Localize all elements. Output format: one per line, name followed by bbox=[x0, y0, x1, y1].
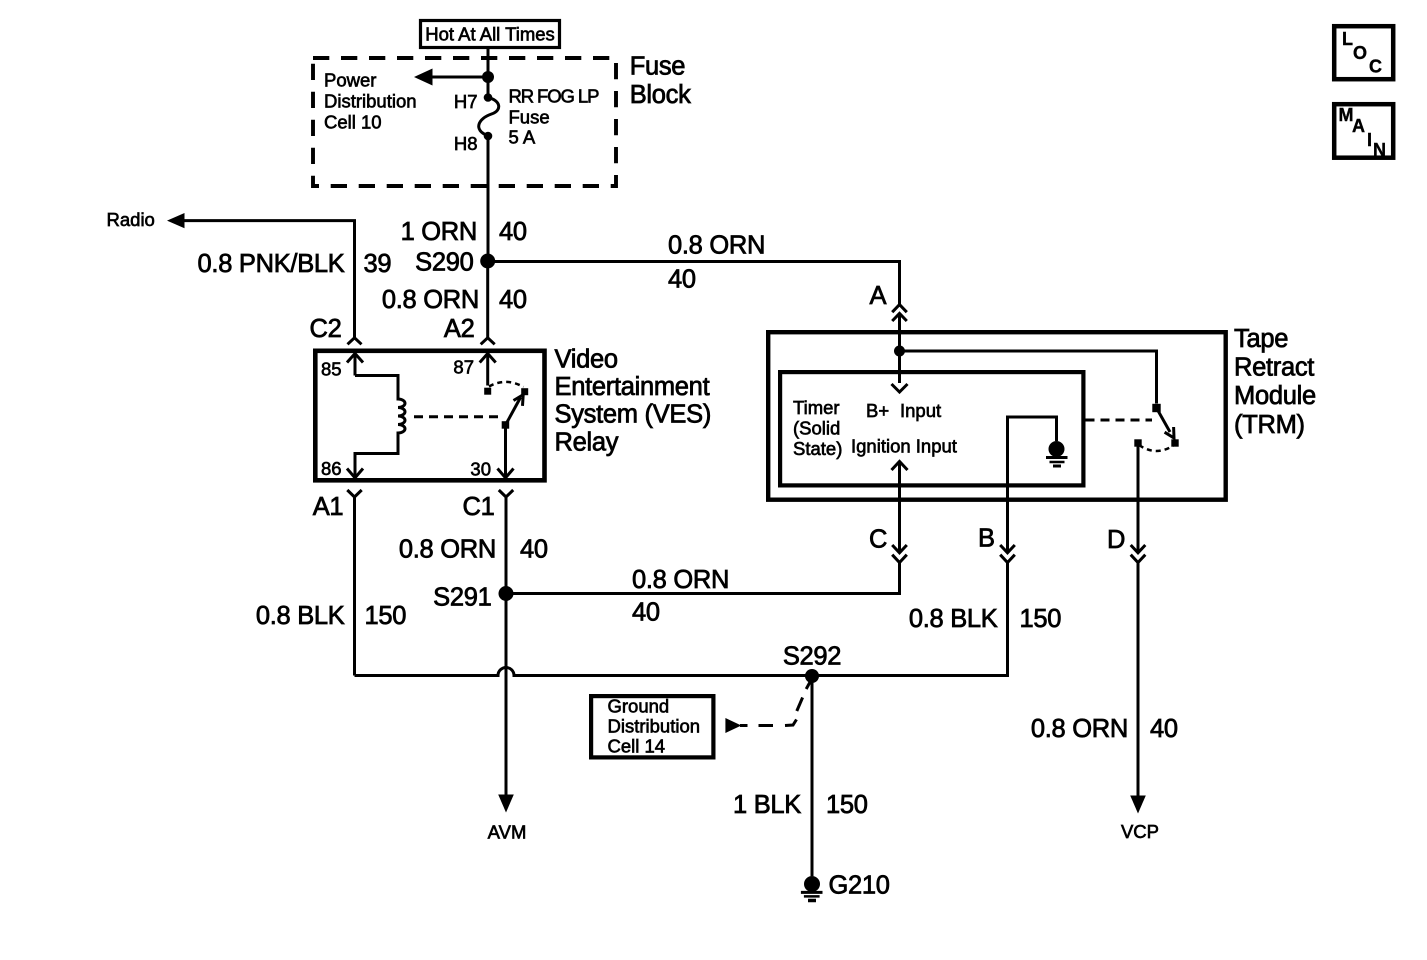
svg-text:Distribution: Distribution bbox=[324, 91, 417, 112]
svg-text:40: 40 bbox=[499, 286, 527, 314]
svg-text:Ground: Ground bbox=[608, 696, 670, 717]
svg-text:D: D bbox=[1107, 526, 1125, 554]
wire: B up into timer to ground bbox=[1008, 417, 1057, 553]
wire: A1 down to ground run bbox=[353, 497, 356, 676]
svg-text:H8: H8 bbox=[454, 133, 478, 154]
dashed reference arrow to S292 bbox=[725, 718, 741, 733]
svg-text:40: 40 bbox=[632, 599, 660, 627]
svg-text:State): State) bbox=[793, 438, 842, 459]
wire: S291 right to TRM pin C bbox=[506, 563, 900, 594]
svg-text:150: 150 bbox=[826, 791, 868, 819]
relay switch arm bbox=[502, 421, 510, 429]
svg-text:Module: Module bbox=[1234, 382, 1316, 410]
svg-text:Radio: Radio bbox=[107, 209, 155, 230]
svg-text:0.8 BLK: 0.8 BLK bbox=[909, 605, 998, 633]
TRM switch contact bbox=[1171, 439, 1178, 446]
svg-text:Timer: Timer bbox=[793, 397, 840, 418]
svg-text:40: 40 bbox=[668, 266, 696, 294]
svg-text:5 A: 5 A bbox=[509, 127, 536, 148]
svg-text:C1: C1 bbox=[463, 493, 495, 521]
wire: Radio arrow from C2 bbox=[167, 213, 185, 228]
svg-text:Entertainment: Entertainment bbox=[555, 373, 710, 401]
relay contact 87 bbox=[484, 388, 491, 395]
svg-text:30: 30 bbox=[470, 459, 491, 480]
svg-text:0.8 PNK/BLK: 0.8 PNK/BLK bbox=[198, 250, 345, 278]
relay dashed contact arc bbox=[489, 382, 524, 387]
svg-text:Distribution: Distribution bbox=[608, 716, 701, 737]
TRM switch arm bbox=[1157, 408, 1171, 432]
svg-text:G210: G210 bbox=[829, 872, 890, 900]
wire: D down from switch bbox=[1137, 446, 1140, 553]
svg-text:C: C bbox=[869, 526, 887, 554]
svg-text:150: 150 bbox=[365, 602, 407, 630]
LOC index box bbox=[1334, 26, 1393, 79]
fuse block dashed box bbox=[313, 58, 616, 186]
arrow to AVM bbox=[498, 795, 514, 813]
wire: fuse H8 down to S290 bbox=[487, 136, 490, 262]
wire: Hot At All Times down into fuse block bbox=[487, 48, 490, 77]
TRM dashed linkage bbox=[1086, 419, 1153, 422]
wire: B+ Input arrow bbox=[898, 351, 901, 383]
svg-text:(TRM): (TRM) bbox=[1234, 411, 1305, 439]
wire: A into TRM to junction bbox=[898, 313, 901, 351]
MAIN index box bbox=[1334, 104, 1393, 158]
TRM dashed contact arc bbox=[1139, 445, 1174, 451]
svg-text:0.8 ORN: 0.8 ORN bbox=[668, 232, 765, 260]
svg-text:0.8 BLK: 0.8 BLK bbox=[256, 602, 345, 630]
wire: D down to VCP bbox=[1137, 563, 1140, 796]
svg-text:A: A bbox=[870, 282, 887, 310]
relay pin 85 arrow bbox=[347, 354, 363, 363]
wire: S290 right to TRM pin A bbox=[488, 262, 900, 306]
svg-text:AVM: AVM bbox=[488, 822, 527, 843]
svg-text:VCP: VCP bbox=[1121, 821, 1159, 842]
svg-text:(Solid: (Solid bbox=[793, 418, 840, 439]
svg-text:Video: Video bbox=[555, 345, 618, 373]
svg-text:L: L bbox=[1342, 29, 1353, 49]
svg-text:Retract: Retract bbox=[1234, 354, 1314, 382]
node: TRM B+ junction bbox=[894, 346, 905, 357]
arrow to VCP bbox=[1130, 796, 1146, 814]
svg-text:O: O bbox=[1353, 43, 1367, 63]
svg-text:A1: A1 bbox=[313, 493, 344, 521]
svg-text:Relay: Relay bbox=[555, 428, 619, 456]
svg-text:Hot At All Times: Hot At All Times bbox=[425, 24, 555, 45]
svg-text:Cell 10: Cell 10 bbox=[324, 111, 382, 132]
svg-text:Block: Block bbox=[630, 81, 691, 109]
svg-text:Ignition Input: Ignition Input bbox=[851, 436, 957, 457]
ground distribution cell box bbox=[591, 696, 713, 757]
svg-text:Input: Input bbox=[900, 400, 941, 421]
svg-text:RR FOG LP: RR FOG LP bbox=[509, 85, 600, 106]
svg-text:A: A bbox=[1352, 116, 1365, 136]
svg-text:System (VES): System (VES) bbox=[555, 401, 712, 429]
relay coil bbox=[355, 376, 405, 471]
wire: ignition input up arrow from C bbox=[892, 462, 908, 471]
svg-text:0.8 ORN: 0.8 ORN bbox=[1031, 715, 1128, 743]
fuse F: RR FOG LP Fuse 5A between H7 and H8 bbox=[487, 77, 490, 96]
TRM outer box: Tape Retract Module bbox=[768, 332, 1225, 500]
svg-text:86: 86 bbox=[321, 458, 342, 479]
svg-text:H7: H7 bbox=[454, 91, 478, 112]
ground: TRM internal bbox=[1049, 441, 1065, 457]
svg-text:Fuse: Fuse bbox=[509, 107, 550, 128]
svg-text:C2: C2 bbox=[310, 315, 342, 343]
wire: S292 down to G210 bbox=[811, 676, 814, 876]
svg-text:85: 85 bbox=[321, 359, 342, 380]
Hot At All Times label box bbox=[421, 21, 560, 48]
relay dashed linkage bbox=[414, 415, 501, 418]
svg-text:1 BLK: 1 BLK bbox=[733, 791, 801, 819]
relay pin 30 wire and arrow bbox=[504, 428, 507, 477]
svg-text:150: 150 bbox=[1020, 605, 1062, 633]
wire: arrow to Power Distribution Cell 10 bbox=[431, 76, 488, 79]
svg-text:Cell 14: Cell 14 bbox=[608, 736, 666, 757]
relay pin 86 arrow bbox=[347, 469, 363, 478]
TRM switch pivot bbox=[1152, 404, 1160, 412]
svg-text:87: 87 bbox=[453, 357, 474, 378]
svg-text:S292: S292 bbox=[783, 643, 841, 671]
svg-text:0.8 ORN: 0.8 ORN bbox=[382, 286, 479, 314]
wire: C1 down to S291 bbox=[505, 497, 508, 594]
ground G210 bbox=[804, 876, 820, 892]
svg-text:40: 40 bbox=[520, 536, 548, 564]
svg-text:40: 40 bbox=[1150, 715, 1178, 743]
svg-text:1 ORN: 1 ORN bbox=[401, 218, 477, 246]
svg-text:S291: S291 bbox=[433, 584, 491, 612]
svg-text:N: N bbox=[1373, 140, 1386, 160]
wire: S291 down to AVM bbox=[505, 594, 508, 795]
svg-text:A2: A2 bbox=[444, 315, 475, 343]
wire: S290 down to relay A2 bbox=[486, 262, 489, 338]
TRM inner timer box bbox=[780, 372, 1083, 485]
relay box: Video Entertainment System (VES) Relay bbox=[315, 351, 544, 481]
node: junction dot at fuse feed bbox=[482, 71, 494, 83]
TRM pin D contact bbox=[1134, 439, 1141, 446]
svg-text:0.8 ORN: 0.8 ORN bbox=[632, 566, 729, 594]
svg-text:39: 39 bbox=[364, 250, 392, 278]
svg-text:0.8 ORN: 0.8 ORN bbox=[399, 536, 496, 564]
relay pin 87 arrow bbox=[480, 354, 496, 363]
svg-text:C: C bbox=[1369, 57, 1382, 77]
svg-text:I: I bbox=[1367, 130, 1372, 150]
svg-text:Tape: Tape bbox=[1234, 325, 1288, 353]
svg-text:B: B bbox=[978, 525, 995, 553]
svg-text:B+: B+ bbox=[866, 400, 889, 421]
svg-text:40: 40 bbox=[499, 218, 527, 246]
svg-text:S290: S290 bbox=[415, 249, 473, 277]
relay upper-right contact bbox=[521, 388, 528, 395]
wire: ground run A1 to B with hop over AVM wire, S292 bbox=[355, 563, 1008, 676]
svg-text:Fuse: Fuse bbox=[630, 53, 686, 81]
wire: TRM junction right to switch bbox=[900, 351, 1157, 404]
svg-text:Power: Power bbox=[324, 70, 376, 91]
